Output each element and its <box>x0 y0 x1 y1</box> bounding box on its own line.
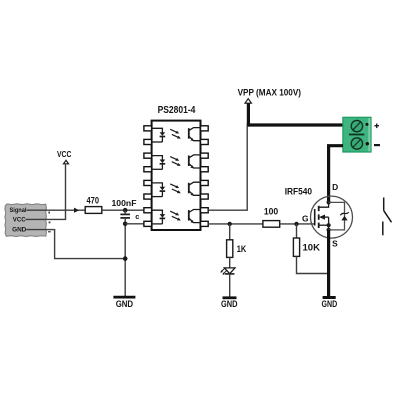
svg-text:100nF: 100nF <box>112 198 137 208</box>
label plus <box>374 124 379 129</box>
wire U1 pin8R gate row <box>208 223 263 225</box>
wire U1 pin7R to VPP <box>208 126 247 210</box>
mosfet Q1 IRF540 <box>285 182 353 248</box>
10K pulldown <box>293 224 327 274</box>
Q1 body diode <box>329 202 349 230</box>
svg-text:10K: 10K <box>303 242 321 252</box>
wire cap to U1 pin8L <box>125 223 144 225</box>
node source a <box>327 223 331 227</box>
wire cap vertical upper <box>124 210 126 214</box>
wire R470 to U1 pin <box>102 209 144 211</box>
resistor 470 <box>85 195 102 213</box>
pin mark minus <box>48 231 51 232</box>
pin mark s <box>48 212 50 214</box>
node 1K junction <box>228 222 232 226</box>
arrow signal direction <box>74 208 79 213</box>
terminal block J2 <box>343 117 371 152</box>
svg-text:GND: GND <box>322 299 338 309</box>
capacitor 100nF <box>112 198 140 221</box>
resistor 1K <box>227 224 247 258</box>
wire 100 to gate <box>280 223 315 225</box>
node cap bottom <box>123 222 128 227</box>
Q1 body arrow <box>319 215 329 230</box>
label minus <box>374 144 380 146</box>
svg-text:470: 470 <box>87 195 100 205</box>
wire cap vertical to ground <box>124 218 126 296</box>
U1 right pins <box>201 126 209 227</box>
svg-text:D: D <box>332 182 338 192</box>
Q1 channel segments <box>318 206 320 228</box>
node 10K junction <box>294 222 298 226</box>
Q1 gate bar <box>314 209 316 226</box>
Q1 drain internal <box>319 202 329 207</box>
U1 channel 3 <box>152 182 201 196</box>
power VCC <box>57 150 72 164</box>
wire GND from J1 <box>26 230 125 259</box>
node source b <box>327 228 331 232</box>
ground G3 <box>322 298 338 310</box>
svg-text:c: c <box>135 212 139 221</box>
wire VPP thick horizontal to terminal <box>247 123 343 126</box>
ground G1 <box>113 297 135 309</box>
svg-text:GND: GND <box>12 227 26 234</box>
ground G2 <box>221 298 238 309</box>
wire signal from J1 to R470 <box>27 209 86 211</box>
svg-text:G: G <box>302 214 309 224</box>
svg-text:IRF540: IRF540 <box>285 185 312 196</box>
wire terminal minus to drain thick <box>329 146 343 203</box>
switch S1 <box>383 198 392 236</box>
svg-text:Signal: Signal <box>10 207 27 214</box>
U1 channel 1 <box>152 128 201 142</box>
led D1 <box>220 268 235 275</box>
Q1 source internal <box>319 224 329 226</box>
resistor 100 <box>263 206 280 227</box>
node drain <box>327 200 331 204</box>
svg-text:VCC: VCC <box>13 216 26 223</box>
svg-text:VCC: VCC <box>57 150 72 159</box>
U1 channel 2 <box>152 155 201 169</box>
svg-text:S: S <box>332 239 338 249</box>
power VPP <box>238 87 301 103</box>
pin mark dot <box>49 222 51 224</box>
wire 1K to LED <box>229 257 231 268</box>
svg-text:1K: 1K <box>237 244 247 254</box>
svg-text:GND: GND <box>221 299 238 309</box>
node gnd join <box>123 256 128 261</box>
U1 left pins <box>144 126 152 227</box>
wire VCC to J1 <box>26 164 66 220</box>
connector J1 (gray module) <box>5 204 47 237</box>
svg-text:GND: GND <box>116 299 133 309</box>
svg-text:PS2801-4: PS2801-4 <box>158 105 196 116</box>
node cap top <box>123 208 128 213</box>
svg-text:VPP (MAX 100V): VPP (MAX 100V) <box>238 87 301 97</box>
optocoupler U1 PS2801-4 <box>152 105 201 230</box>
wire source thick to ground <box>327 230 330 296</box>
wire LED to ground <box>229 274 231 297</box>
U1 channel 4 <box>152 210 201 224</box>
svg-text:100: 100 <box>264 206 278 216</box>
wire VPP thick vertical <box>247 103 250 126</box>
